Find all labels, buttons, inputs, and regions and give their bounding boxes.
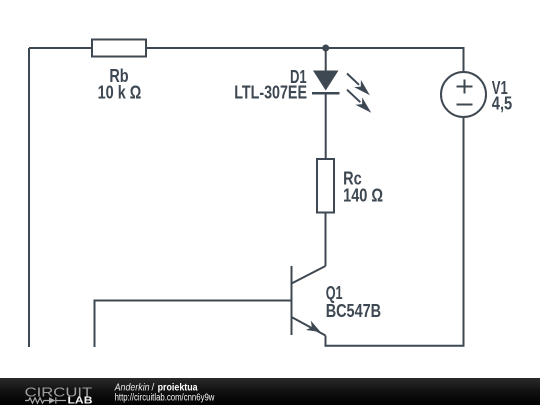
wire Rb to junction <box>146 47 326 49</box>
transistor Q1 emitter diagonal <box>292 317 326 336</box>
LED D1 cathode bar <box>312 92 340 95</box>
wire junction to V1 top corner <box>326 48 464 72</box>
transistor Q1 <box>292 266 326 336</box>
transistor Q1 base bar <box>291 266 293 335</box>
wire junction down to LED anode <box>325 48 327 71</box>
voltage source V1 <box>441 72 486 117</box>
svg-text:LAB: LAB <box>68 395 93 405</box>
svg-text:140 Ω: 140 Ω <box>343 186 383 206</box>
wire Rc bottom to transistor collector <box>325 213 327 267</box>
transistor Q1 emitter arrowhead <box>306 321 321 332</box>
svg-text:Q1: Q1 <box>326 283 343 303</box>
LED D1 light arrow 2 <box>347 90 371 113</box>
wire left vertical rail <box>28 48 30 347</box>
voltage source V1 minus sign <box>457 104 473 106</box>
svg-text:LTL-307EE: LTL-307EE <box>234 83 307 103</box>
resistor Rb <box>92 40 146 57</box>
wire base horizontal with stub down-left <box>95 301 292 348</box>
LED D1 triangle <box>313 71 339 91</box>
svg-text:4,5: 4,5 <box>492 94 512 114</box>
node junction dot <box>322 45 329 52</box>
wire top-left horizontal (left rail to Rb) <box>29 47 92 49</box>
CircuitLab logo resistor zigzag and diode <box>25 397 66 403</box>
wire LED cathode down to Rc <box>325 93 327 159</box>
transistor Q1 collector diagonal <box>292 266 326 284</box>
wire emitter to bottom rail to V1 bottom <box>326 118 464 346</box>
voltage source V1 plus sign <box>457 80 473 94</box>
svg-text:http://circuitlab.com/cnn6y9w: http://circuitlab.com/cnn6y9w <box>115 392 215 403</box>
LED D1 light arrow 1 <box>347 74 370 96</box>
svg-text:10 k Ω: 10 k Ω <box>98 83 142 103</box>
svg-text:BC547B: BC547B <box>326 301 381 321</box>
resistor Rc <box>317 159 334 213</box>
